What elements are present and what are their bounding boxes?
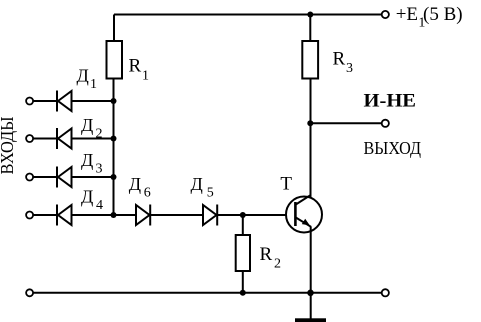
node emitter rail junction [307, 290, 314, 297]
svg-text:6: 6 [144, 186, 151, 201]
svg-text:3: 3 [346, 61, 353, 76]
wire input 2 [33, 138, 114, 140]
svg-text:3: 3 [96, 162, 103, 177]
terminal input 1 [26, 98, 33, 105]
svg-text:4: 4 [96, 198, 103, 213]
svg-text:ВХОДЫ: ВХОДЫ [0, 116, 17, 174]
resistor R1 [107, 41, 150, 84]
wire R3 top stub [309, 15, 311, 42]
wire emitter to ground [310, 227, 312, 320]
node input bus junction 3 [111, 174, 117, 180]
transistor T [280, 173, 322, 232]
wire top rail [114, 14, 382, 16]
diode D5 [191, 174, 218, 226]
wire input 1 [33, 100, 114, 102]
svg-text:2: 2 [274, 257, 281, 272]
wire input 3 [33, 176, 114, 178]
node input bus junction 4 [111, 212, 117, 218]
resistor R2 [236, 235, 281, 272]
node R2 bottom rail junction [240, 290, 246, 296]
diode D1 [57, 65, 97, 111]
wire R2 top [242, 215, 244, 235]
svg-text:1: 1 [142, 69, 149, 84]
svg-text:5: 5 [207, 186, 214, 201]
wire R1 top stub [113, 15, 115, 42]
diode D6 [129, 174, 151, 226]
resistor R3 [302, 41, 353, 79]
wire input bus vertical [113, 78, 115, 215]
svg-text:(5 В): (5 В) [423, 4, 463, 25]
svg-text:+E: +E [396, 4, 418, 25]
ground [295, 318, 326, 322]
svg-text:Д: Д [81, 115, 93, 135]
label +E1(5 V) [396, 4, 463, 31]
svg-text:Д: Д [129, 174, 141, 194]
node collector output junction [307, 120, 313, 126]
svg-text:ВЫХОД: ВЫХОД [364, 138, 422, 158]
node top rail R3 junction [307, 12, 313, 18]
svg-text:1: 1 [90, 77, 97, 92]
diode D4 [57, 187, 103, 226]
svg-text:R: R [129, 56, 142, 77]
wire R2 bottom [242, 271, 244, 293]
node input bus junction 1 [111, 98, 117, 104]
wire output [310, 122, 381, 124]
svg-text:R: R [333, 48, 346, 69]
svg-text:T: T [280, 173, 292, 194]
terminal +E1 [382, 11, 389, 18]
terminal output [382, 120, 389, 127]
svg-text:И-НЕ: И-НЕ [364, 90, 417, 111]
svg-text:Д: Д [81, 187, 93, 207]
diode D3 [57, 150, 103, 188]
terminal bottom left [26, 289, 33, 296]
terminal input 3 [26, 174, 33, 181]
svg-text:Д: Д [191, 174, 203, 194]
svg-text:2: 2 [96, 127, 103, 142]
svg-text:R: R [260, 244, 273, 265]
diode D2 [57, 115, 103, 149]
wire input 4 / base chain [33, 214, 286, 216]
wire bottom rail [33, 292, 382, 294]
node base/R2 junction [240, 212, 246, 218]
svg-text:Д: Д [77, 65, 89, 85]
terminal input 4 [26, 212, 33, 219]
svg-text:Д: Д [81, 150, 93, 170]
wire collector [310, 79, 312, 198]
terminal bottom right [382, 289, 389, 296]
node input bus junction 2 [111, 136, 117, 142]
terminal input 2 [26, 135, 33, 142]
